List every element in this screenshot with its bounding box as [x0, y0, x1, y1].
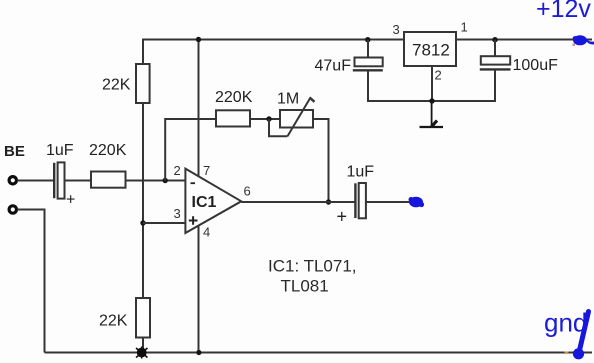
- resistor R4 220K feedback: [215, 89, 253, 127]
- wire: output pin6 to C2: [241, 201, 355, 203]
- node: rail junction at 47uF: [365, 37, 370, 42]
- wire: 7812 pin2 down: [431, 66, 433, 101]
- wire: feedback riser and run to R4: [165, 119, 216, 181]
- svg-text:3: 3: [393, 22, 400, 37]
- potentiometer R5 1M: [269, 91, 315, 137]
- ground symbol under 7812: [420, 101, 444, 127]
- wire: pin4 to ground rail: [198, 226, 200, 353]
- wire: lower terminal to ground rail: [18, 210, 45, 353]
- regulator U2 7812: [393, 20, 468, 83]
- svg-text:4: 4: [203, 225, 210, 240]
- wire: lower 22K to ground rail: [142, 338, 144, 353]
- svg-text:47uF: 47uF: [315, 58, 352, 75]
- svg-text:7: 7: [203, 163, 210, 178]
- wire: C1 to R3: [65, 180, 92, 182]
- svg-text:1: 1: [461, 20, 468, 35]
- capacitor C3 47uF: [315, 40, 383, 75]
- svg-text:IC1: TL071,: IC1: TL071,: [268, 257, 357, 276]
- svg-text:gnd: gnd: [544, 308, 587, 338]
- node: big junction at 22K/ground: [136, 347, 148, 359]
- svg-text:1uF: 1uF: [347, 164, 375, 181]
- capacitor C1 1uF input: [46, 142, 75, 209]
- wire: R5 to output node: [313, 119, 329, 202]
- node: pin2 bus junction: [429, 98, 434, 103]
- svg-text:BE: BE: [4, 143, 25, 160]
- node: pin4 at ground rail: [196, 350, 201, 355]
- svg-text:22K: 22K: [102, 77, 131, 94]
- node: rail junction at pin7 riser: [196, 37, 201, 42]
- wire: pin7 supply vertical: [198, 40, 200, 178]
- mark: pink speck near +12V blob: [573, 44, 576, 47]
- op-amp IC1: [174, 163, 251, 240]
- wire: R3 to pin2: [126, 180, 186, 182]
- svg-text:+: +: [66, 192, 75, 209]
- svg-text:6: 6: [244, 184, 251, 199]
- node: blue gnd stroke and blob: [579, 312, 589, 353]
- mark: orange speck on ground rail: [565, 352, 569, 354]
- wire: pin3 from divider: [143, 222, 185, 224]
- wire: R4 to R5: [250, 118, 280, 120]
- svg-text:22K: 22K: [99, 313, 128, 330]
- wire: input terminal to C1: [18, 180, 54, 182]
- node: feedback to output junction: [326, 199, 331, 204]
- svg-text:2: 2: [435, 68, 442, 83]
- svg-text:7812: 7812: [412, 41, 450, 60]
- svg-text:TL081: TL081: [281, 277, 329, 296]
- wire: bottom bus between caps: [368, 70, 495, 101]
- svg-text:1M: 1M: [277, 91, 299, 108]
- svg-text:3: 3: [174, 206, 181, 221]
- wire: top rail right of 7812: [456, 39, 592, 41]
- svg-text:220K: 220K: [215, 89, 253, 106]
- resistor R1 22K upper: [102, 64, 150, 103]
- resistor R2 22K lower: [99, 298, 150, 338]
- svg-text:1uF: 1uF: [46, 142, 74, 159]
- node: divider to pin3 junction: [140, 220, 145, 225]
- svg-text:IC1: IC1: [192, 194, 217, 211]
- wire: bias divider vertical: [142, 103, 144, 298]
- node: blue +12V blob: [573, 35, 594, 45]
- node: feedback junction on pin2 line: [163, 178, 168, 183]
- capacitor C4 100uF: [480, 40, 558, 74]
- svg-text:+12v: +12v: [536, 0, 591, 23]
- svg-text:+: +: [337, 207, 348, 227]
- node: R4/R5 junction: [266, 116, 271, 121]
- wire: +12V top rail: [143, 40, 404, 65]
- svg-text:2: 2: [174, 163, 181, 178]
- wire: C2 to blue output node: [366, 201, 411, 203]
- svg-text:100uF: 100uF: [513, 57, 559, 74]
- terminal: input BE lower: [9, 206, 16, 213]
- node: blue output blob: [409, 197, 425, 208]
- resistor R3 220K input: [89, 142, 127, 188]
- svg-text:220K: 220K: [89, 142, 127, 159]
- terminal: input BE upper: [9, 177, 16, 184]
- node: rail junction at 100uF: [492, 37, 497, 42]
- capacitor C2 1uF output: [337, 164, 375, 227]
- wire: bottom ground rail: [45, 352, 593, 354]
